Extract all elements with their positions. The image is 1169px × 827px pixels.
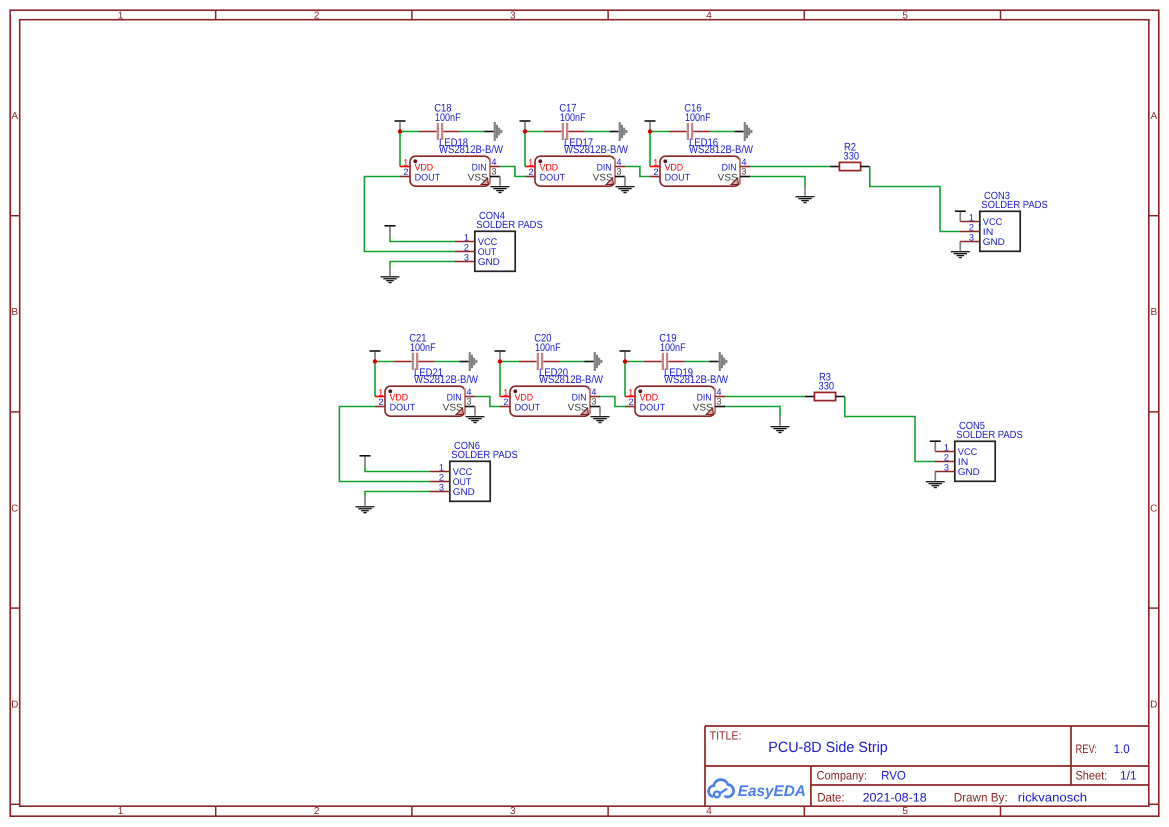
svg-text:D: D bbox=[11, 700, 18, 711]
CON4 part label SOLDER PADS bbox=[476, 220, 543, 231]
title block label TITLE: bbox=[710, 729, 742, 743]
svg-text:1: 1 bbox=[118, 10, 124, 21]
svg-text:2: 2 bbox=[378, 397, 383, 407]
svg-text:GND: GND bbox=[478, 257, 500, 268]
LED21 pin name DIN bbox=[447, 393, 462, 404]
LED21 pin 1 (VDD) bbox=[375, 387, 385, 397]
title block label Company: bbox=[817, 768, 867, 782]
CON6 pin name GND bbox=[453, 487, 475, 498]
svg-text:Drawn By:: Drawn By: bbox=[954, 790, 1008, 804]
svg-text:2021-08-18: 2021-08-18 bbox=[863, 790, 927, 804]
LED19 pin 3 (VSS) bbox=[715, 396, 725, 406]
wire bbox=[390, 236, 455, 241]
wire bbox=[365, 492, 430, 497]
C20 reference label bbox=[534, 333, 551, 345]
svg-text:4: 4 bbox=[491, 157, 496, 167]
CON3 pin 2 (IN) bbox=[960, 222, 980, 232]
svg-text:VSS: VSS bbox=[718, 173, 738, 184]
ground bbox=[466, 407, 485, 424]
ground (rotated right) bbox=[734, 122, 752, 141]
svg-text:A: A bbox=[11, 111, 18, 122]
junction bbox=[398, 129, 402, 133]
title block label REV: bbox=[1076, 742, 1098, 756]
CON3 pin 3 (GND) bbox=[960, 232, 980, 242]
svg-text:100nF: 100nF bbox=[685, 112, 711, 124]
svg-text:B: B bbox=[11, 307, 18, 318]
capacitor C16 bbox=[669, 123, 710, 140]
svg-text:1: 1 bbox=[439, 462, 444, 472]
LED20 pin name DIN bbox=[572, 393, 587, 404]
svg-text:3: 3 bbox=[464, 252, 469, 262]
junction bbox=[523, 129, 527, 133]
VCC power symbol bbox=[360, 455, 371, 466]
svg-text:330: 330 bbox=[844, 151, 860, 163]
svg-text:2: 2 bbox=[628, 397, 633, 407]
ground (rotated right) bbox=[709, 352, 727, 371]
svg-text:1: 1 bbox=[378, 387, 383, 397]
svg-text:DOUT: DOUT bbox=[390, 402, 416, 413]
R2 value label 330 bbox=[844, 151, 860, 163]
CON6 reference label bbox=[454, 441, 480, 452]
svg-text:WS2812B-B/W: WS2812B-B/W bbox=[689, 144, 754, 156]
svg-text:2: 2 bbox=[503, 397, 508, 407]
WS2812B LED LED21 body bbox=[385, 386, 465, 416]
LED16 pin name VSS bbox=[718, 173, 738, 184]
junction bbox=[498, 359, 502, 363]
svg-text:A: A bbox=[1150, 111, 1157, 122]
wire bbox=[710, 131, 735, 133]
LED18 pin name VDD bbox=[415, 162, 434, 173]
ground (rotated right) bbox=[459, 352, 477, 371]
LED19 part number WS2812B-B/W bbox=[664, 374, 729, 386]
svg-text:C: C bbox=[1150, 503, 1157, 514]
svg-text:2: 2 bbox=[314, 806, 320, 817]
VCC power symbol bbox=[370, 350, 381, 361]
CON3 reference label bbox=[984, 191, 1010, 202]
title block label Drawn By: bbox=[954, 790, 1008, 804]
svg-text:1: 1 bbox=[628, 387, 633, 397]
svg-text:WS2812B-B/W: WS2812B-B/W bbox=[664, 374, 729, 386]
svg-text:GND: GND bbox=[453, 487, 475, 498]
LED16 pin 1 (VDD) bbox=[650, 157, 660, 167]
R2 reference label bbox=[844, 141, 856, 153]
connector CON4 body bbox=[475, 231, 515, 271]
capacitor C21 bbox=[394, 353, 435, 370]
WS2812B LED LED20 body bbox=[510, 386, 590, 416]
EasyEDA logo text bbox=[738, 783, 806, 800]
svg-text:WS2812B-B/W: WS2812B-B/W bbox=[414, 374, 479, 386]
svg-text:330: 330 bbox=[819, 381, 835, 393]
svg-text:1: 1 bbox=[503, 387, 508, 397]
C16 reference label bbox=[684, 103, 701, 115]
svg-text:100nF: 100nF bbox=[560, 112, 586, 124]
LED19 pin name VDD bbox=[640, 392, 659, 403]
capacitor C17 bbox=[544, 123, 585, 140]
svg-text:100nF: 100nF bbox=[660, 342, 686, 354]
svg-text:REV:: REV: bbox=[1076, 742, 1098, 756]
svg-text:2: 2 bbox=[439, 472, 444, 482]
ground bbox=[926, 472, 945, 489]
wire bbox=[600, 397, 625, 407]
WS2812B LED LED17 body bbox=[535, 156, 615, 186]
CON6 part label SOLDER PADS bbox=[451, 450, 518, 461]
LED18 pin name DOUT bbox=[415, 172, 441, 183]
EasyEDA logo cloud bbox=[709, 780, 734, 798]
CON3 pin 1 (VCC) bbox=[960, 212, 980, 222]
wire bbox=[750, 166, 830, 168]
ground bbox=[951, 242, 970, 259]
ground bbox=[591, 407, 610, 424]
schematic title PCU-8D Side Strip bbox=[768, 740, 888, 756]
svg-text:2: 2 bbox=[403, 167, 408, 177]
wire bbox=[650, 131, 669, 133]
LED20 pin 1 (VDD) bbox=[500, 387, 510, 397]
svg-text:PCU-8D Side Strip: PCU-8D Side Strip bbox=[768, 740, 888, 756]
LED21 pin name VDD bbox=[390, 392, 409, 403]
CON6 pin 2 (OUT) bbox=[430, 472, 450, 482]
svg-text:3: 3 bbox=[466, 396, 471, 406]
LED21 part number WS2812B-B/W bbox=[414, 374, 479, 386]
svg-text:3: 3 bbox=[616, 166, 621, 176]
VCC power symbol bbox=[520, 120, 531, 131]
wire bbox=[375, 361, 394, 363]
LED19 pin 4 (DIN) bbox=[715, 387, 725, 397]
company value RVO bbox=[881, 768, 906, 782]
C21 value label 100nF bbox=[410, 342, 436, 354]
svg-text:GND: GND bbox=[958, 467, 980, 478]
svg-text:1: 1 bbox=[944, 442, 949, 452]
CON5 pin 3 (GND) bbox=[935, 462, 955, 472]
wire bbox=[500, 361, 519, 363]
WS2812B LED LED16 body bbox=[660, 156, 740, 186]
svg-text:4: 4 bbox=[741, 157, 746, 167]
LED16 pin name DOUT bbox=[665, 172, 691, 183]
svg-text:3: 3 bbox=[944, 462, 949, 472]
wire bbox=[400, 131, 419, 133]
svg-text:2: 2 bbox=[314, 10, 320, 21]
svg-text:100nF: 100nF bbox=[435, 112, 461, 124]
wire bbox=[624, 362, 626, 397]
wire bbox=[460, 131, 485, 133]
LED16 part number WS2812B-B/W bbox=[689, 144, 754, 156]
date value 2021-08-18 bbox=[863, 790, 927, 804]
CON6 pin 1 (VCC) bbox=[430, 462, 450, 472]
svg-text:4: 4 bbox=[466, 387, 471, 397]
svg-text:1: 1 bbox=[969, 212, 974, 222]
sheet row letters bbox=[11, 111, 1157, 711]
LED17 pin name DOUT bbox=[540, 172, 566, 183]
svg-text:rickvanosch: rickvanosch bbox=[1018, 790, 1087, 804]
VCC power symbol bbox=[395, 120, 406, 131]
LED20 pin name DOUT bbox=[515, 402, 541, 413]
wire bbox=[525, 131, 544, 133]
LED16 pin 3 (VSS) bbox=[740, 166, 750, 176]
svg-text:DOUT: DOUT bbox=[540, 172, 566, 183]
CON6 pin name VCC bbox=[453, 467, 473, 478]
svg-text:2: 2 bbox=[969, 222, 974, 232]
svg-text:Company:: Company: bbox=[817, 768, 867, 782]
LED18 pin name DIN bbox=[472, 163, 487, 174]
wire bbox=[649, 132, 651, 167]
svg-text:3: 3 bbox=[741, 166, 746, 176]
LED21 pin 4 (DIN) bbox=[465, 387, 475, 397]
CON4 pin 1 (VCC) bbox=[455, 232, 475, 242]
wire bbox=[500, 167, 525, 177]
C18 value label 100nF bbox=[435, 112, 461, 124]
LED18 pin 4 (DIN) bbox=[490, 157, 500, 167]
LED21 pin 2 (DOUT) bbox=[375, 397, 385, 407]
wire bbox=[365, 466, 430, 471]
svg-text:3: 3 bbox=[491, 166, 496, 176]
revision value 1.0 bbox=[1114, 742, 1130, 756]
LED19 pin name VSS bbox=[693, 403, 713, 414]
CON4 pin name VCC bbox=[478, 237, 498, 248]
CON5 pin name GND bbox=[958, 467, 980, 478]
CON3 pin name IN bbox=[983, 227, 994, 238]
CON5 pin 1 (VCC) bbox=[935, 442, 955, 452]
svg-text:3: 3 bbox=[716, 396, 721, 406]
svg-text:4: 4 bbox=[716, 387, 721, 397]
LED17 pin 4 (DIN) bbox=[615, 157, 625, 167]
LED17 pin 1 (VDD) bbox=[525, 157, 535, 167]
CON5 pin 2 (IN) bbox=[935, 452, 955, 462]
C19 value label 100nF bbox=[660, 342, 686, 354]
ground (rotated right) bbox=[584, 352, 602, 371]
sheet value 1/1 bbox=[1120, 769, 1137, 783]
R3 reference label bbox=[819, 371, 831, 383]
CON4 pin name OUT bbox=[478, 247, 497, 258]
LED17 pin name VDD bbox=[540, 162, 559, 173]
wire bbox=[585, 131, 610, 133]
svg-text:VSS: VSS bbox=[443, 403, 463, 414]
LED19 pin name DIN bbox=[697, 393, 712, 404]
VCC power symbol bbox=[620, 350, 631, 361]
wire bbox=[625, 361, 644, 363]
svg-text:SOLDER PADS: SOLDER PADS bbox=[476, 220, 543, 231]
svg-text:2: 2 bbox=[944, 452, 949, 462]
C21 reference label bbox=[409, 333, 426, 345]
wire bbox=[339, 407, 430, 482]
svg-text:4: 4 bbox=[591, 387, 596, 397]
wire bbox=[499, 362, 501, 397]
svg-text:3: 3 bbox=[969, 232, 974, 242]
title block label Sheet: bbox=[1076, 769, 1108, 783]
CON3 pin name VCC bbox=[983, 217, 1003, 228]
VCC power symbol bbox=[930, 440, 941, 451]
connector CON5 body bbox=[955, 441, 995, 481]
CON4 reference label bbox=[479, 211, 505, 222]
wire bbox=[725, 407, 780, 417]
ground (rotated right) bbox=[484, 122, 502, 141]
resistor R3 bbox=[805, 392, 845, 400]
title block frame bbox=[705, 726, 1149, 806]
svg-text:TITLE:: TITLE: bbox=[710, 729, 742, 743]
svg-text:DOUT: DOUT bbox=[415, 172, 441, 183]
WS2812B LED LED18 body bbox=[410, 156, 490, 186]
sheet column numbers bbox=[118, 10, 909, 817]
wire bbox=[560, 361, 585, 363]
CON6 pin 3 (GND) bbox=[430, 482, 450, 492]
wire bbox=[475, 397, 500, 407]
LED19 pin 1 (VDD) bbox=[625, 387, 635, 397]
svg-text:D: D bbox=[1150, 700, 1157, 711]
ground bbox=[771, 417, 790, 434]
LED17 pin 2 (DOUT) bbox=[525, 167, 535, 177]
C18 reference label bbox=[434, 103, 451, 115]
LED17 pin name VSS bbox=[593, 173, 613, 184]
CON6 pin name OUT bbox=[453, 477, 472, 488]
LED16 pin name DIN bbox=[722, 163, 737, 174]
wire bbox=[870, 167, 960, 232]
wire bbox=[399, 132, 401, 167]
svg-text:100nF: 100nF bbox=[410, 342, 436, 354]
wire bbox=[625, 167, 650, 177]
svg-text:Date:: Date: bbox=[817, 790, 844, 804]
LED20 pin name VSS bbox=[568, 403, 588, 414]
C17 value label 100nF bbox=[560, 112, 586, 124]
VCC power symbol bbox=[385, 225, 396, 236]
svg-text:3: 3 bbox=[510, 806, 516, 817]
CON4 pin 3 (GND) bbox=[455, 252, 475, 262]
connector CON3 body bbox=[980, 211, 1020, 251]
LED20 reference label bbox=[539, 367, 568, 379]
LED20 pin 2 (DOUT) bbox=[500, 397, 510, 407]
svg-text:GND: GND bbox=[983, 237, 1005, 248]
svg-text:1/1: 1/1 bbox=[1120, 769, 1137, 783]
wire bbox=[390, 262, 455, 267]
svg-text:3: 3 bbox=[439, 482, 444, 492]
CON5 pin name VCC bbox=[958, 447, 978, 458]
svg-text:2: 2 bbox=[653, 167, 658, 177]
LED19 pin name DOUT bbox=[640, 402, 666, 413]
R3 value label 330 bbox=[819, 381, 835, 393]
LED18 part number WS2812B-B/W bbox=[439, 144, 504, 156]
LED21 pin name VSS bbox=[443, 403, 463, 414]
connector CON6 body bbox=[450, 461, 490, 501]
wire bbox=[750, 177, 805, 187]
LED16 reference label bbox=[689, 137, 718, 149]
LED18 pin name VSS bbox=[468, 173, 488, 184]
ground bbox=[491, 177, 510, 194]
WS2812B LED LED19 body bbox=[635, 386, 715, 416]
CON5 pin name IN bbox=[958, 457, 969, 468]
LED17 pin name DIN bbox=[597, 163, 612, 174]
svg-text:DOUT: DOUT bbox=[640, 402, 666, 413]
LED20 pin name VDD bbox=[515, 392, 534, 403]
LED21 pin 3 (VSS) bbox=[465, 396, 475, 406]
LED17 reference label bbox=[564, 137, 593, 149]
LED16 pin 2 (DOUT) bbox=[650, 167, 660, 177]
resistor R2 bbox=[830, 162, 870, 170]
svg-text:4: 4 bbox=[616, 157, 621, 167]
svg-text:SOLDER PADS: SOLDER PADS bbox=[981, 200, 1048, 211]
svg-text:5: 5 bbox=[902, 806, 908, 817]
svg-text:VSS: VSS bbox=[593, 173, 613, 184]
svg-text:1.0: 1.0 bbox=[1114, 742, 1130, 756]
VCC power symbol bbox=[495, 350, 506, 361]
capacitor C19 bbox=[644, 353, 685, 370]
C20 value label 100nF bbox=[535, 342, 561, 354]
capacitor C20 bbox=[519, 353, 560, 370]
title block label Date: bbox=[817, 790, 844, 804]
junction bbox=[648, 129, 652, 133]
wire bbox=[685, 361, 710, 363]
LED19 pin 2 (DOUT) bbox=[625, 397, 635, 407]
LED18 pin 2 (DOUT) bbox=[400, 167, 410, 177]
svg-text:VSS: VSS bbox=[568, 403, 588, 414]
LED18 pin 3 (VSS) bbox=[490, 166, 500, 176]
ground bbox=[796, 187, 815, 204]
svg-text:2: 2 bbox=[528, 167, 533, 177]
CON3 pin name GND bbox=[983, 237, 1005, 248]
CON4 pin 2 (OUT) bbox=[455, 242, 475, 252]
LED17 part number WS2812B-B/W bbox=[564, 144, 629, 156]
svg-text:1: 1 bbox=[528, 157, 533, 167]
LED19 reference label bbox=[664, 367, 693, 379]
svg-text:VSS: VSS bbox=[693, 403, 713, 414]
CON5 reference label bbox=[959, 421, 985, 432]
LED16 pin name VDD bbox=[665, 162, 684, 173]
svg-text:WS2812B-B/W: WS2812B-B/W bbox=[564, 144, 629, 156]
svg-text:100nF: 100nF bbox=[535, 342, 561, 354]
CON5 part label SOLDER PADS bbox=[956, 430, 1023, 441]
ground bbox=[616, 177, 635, 194]
svg-text:1: 1 bbox=[653, 157, 658, 167]
C17 reference label bbox=[559, 103, 576, 115]
svg-text:DOUT: DOUT bbox=[515, 402, 541, 413]
VCC power symbol bbox=[955, 210, 966, 221]
ground (rotated right) bbox=[609, 122, 627, 141]
junction bbox=[623, 359, 627, 363]
LED20 pin 3 (VSS) bbox=[590, 396, 600, 406]
LED17 pin 3 (VSS) bbox=[615, 166, 625, 176]
svg-text:4: 4 bbox=[706, 806, 712, 817]
svg-text:VSS: VSS bbox=[468, 173, 488, 184]
LED21 reference label bbox=[414, 367, 443, 379]
VCC power symbol bbox=[645, 120, 656, 131]
svg-text:EasyEDA: EasyEDA bbox=[738, 783, 806, 800]
svg-text:SOLDER PADS: SOLDER PADS bbox=[451, 450, 518, 461]
svg-text:1: 1 bbox=[403, 157, 408, 167]
wire bbox=[364, 177, 455, 252]
LED18 pin 1 (VDD) bbox=[400, 157, 410, 167]
svg-text:DOUT: DOUT bbox=[665, 172, 691, 183]
svg-text:C: C bbox=[11, 503, 18, 514]
svg-text:B: B bbox=[1150, 307, 1157, 318]
ground bbox=[381, 267, 400, 284]
wire bbox=[725, 396, 805, 398]
capacitor C18 bbox=[419, 123, 460, 140]
C19 reference label bbox=[659, 333, 676, 345]
wire bbox=[435, 361, 460, 363]
C16 value label 100nF bbox=[685, 112, 711, 124]
CON3 part label SOLDER PADS bbox=[981, 200, 1048, 211]
ground bbox=[356, 497, 375, 514]
svg-text:WS2812B-B/W: WS2812B-B/W bbox=[439, 144, 504, 156]
svg-text:3: 3 bbox=[510, 10, 516, 21]
wire bbox=[374, 362, 376, 397]
svg-text:5: 5 bbox=[902, 10, 908, 21]
svg-text:2: 2 bbox=[464, 242, 469, 252]
CON4 pin name GND bbox=[478, 257, 500, 268]
LED20 pin 4 (DIN) bbox=[590, 387, 600, 397]
junction bbox=[373, 359, 377, 363]
svg-text:Sheet:: Sheet: bbox=[1076, 769, 1108, 783]
drawn-by value rickvanosch bbox=[1018, 790, 1087, 804]
LED16 pin 4 (DIN) bbox=[740, 157, 750, 167]
wire bbox=[845, 397, 935, 462]
svg-text:WS2812B-B/W: WS2812B-B/W bbox=[539, 374, 604, 386]
